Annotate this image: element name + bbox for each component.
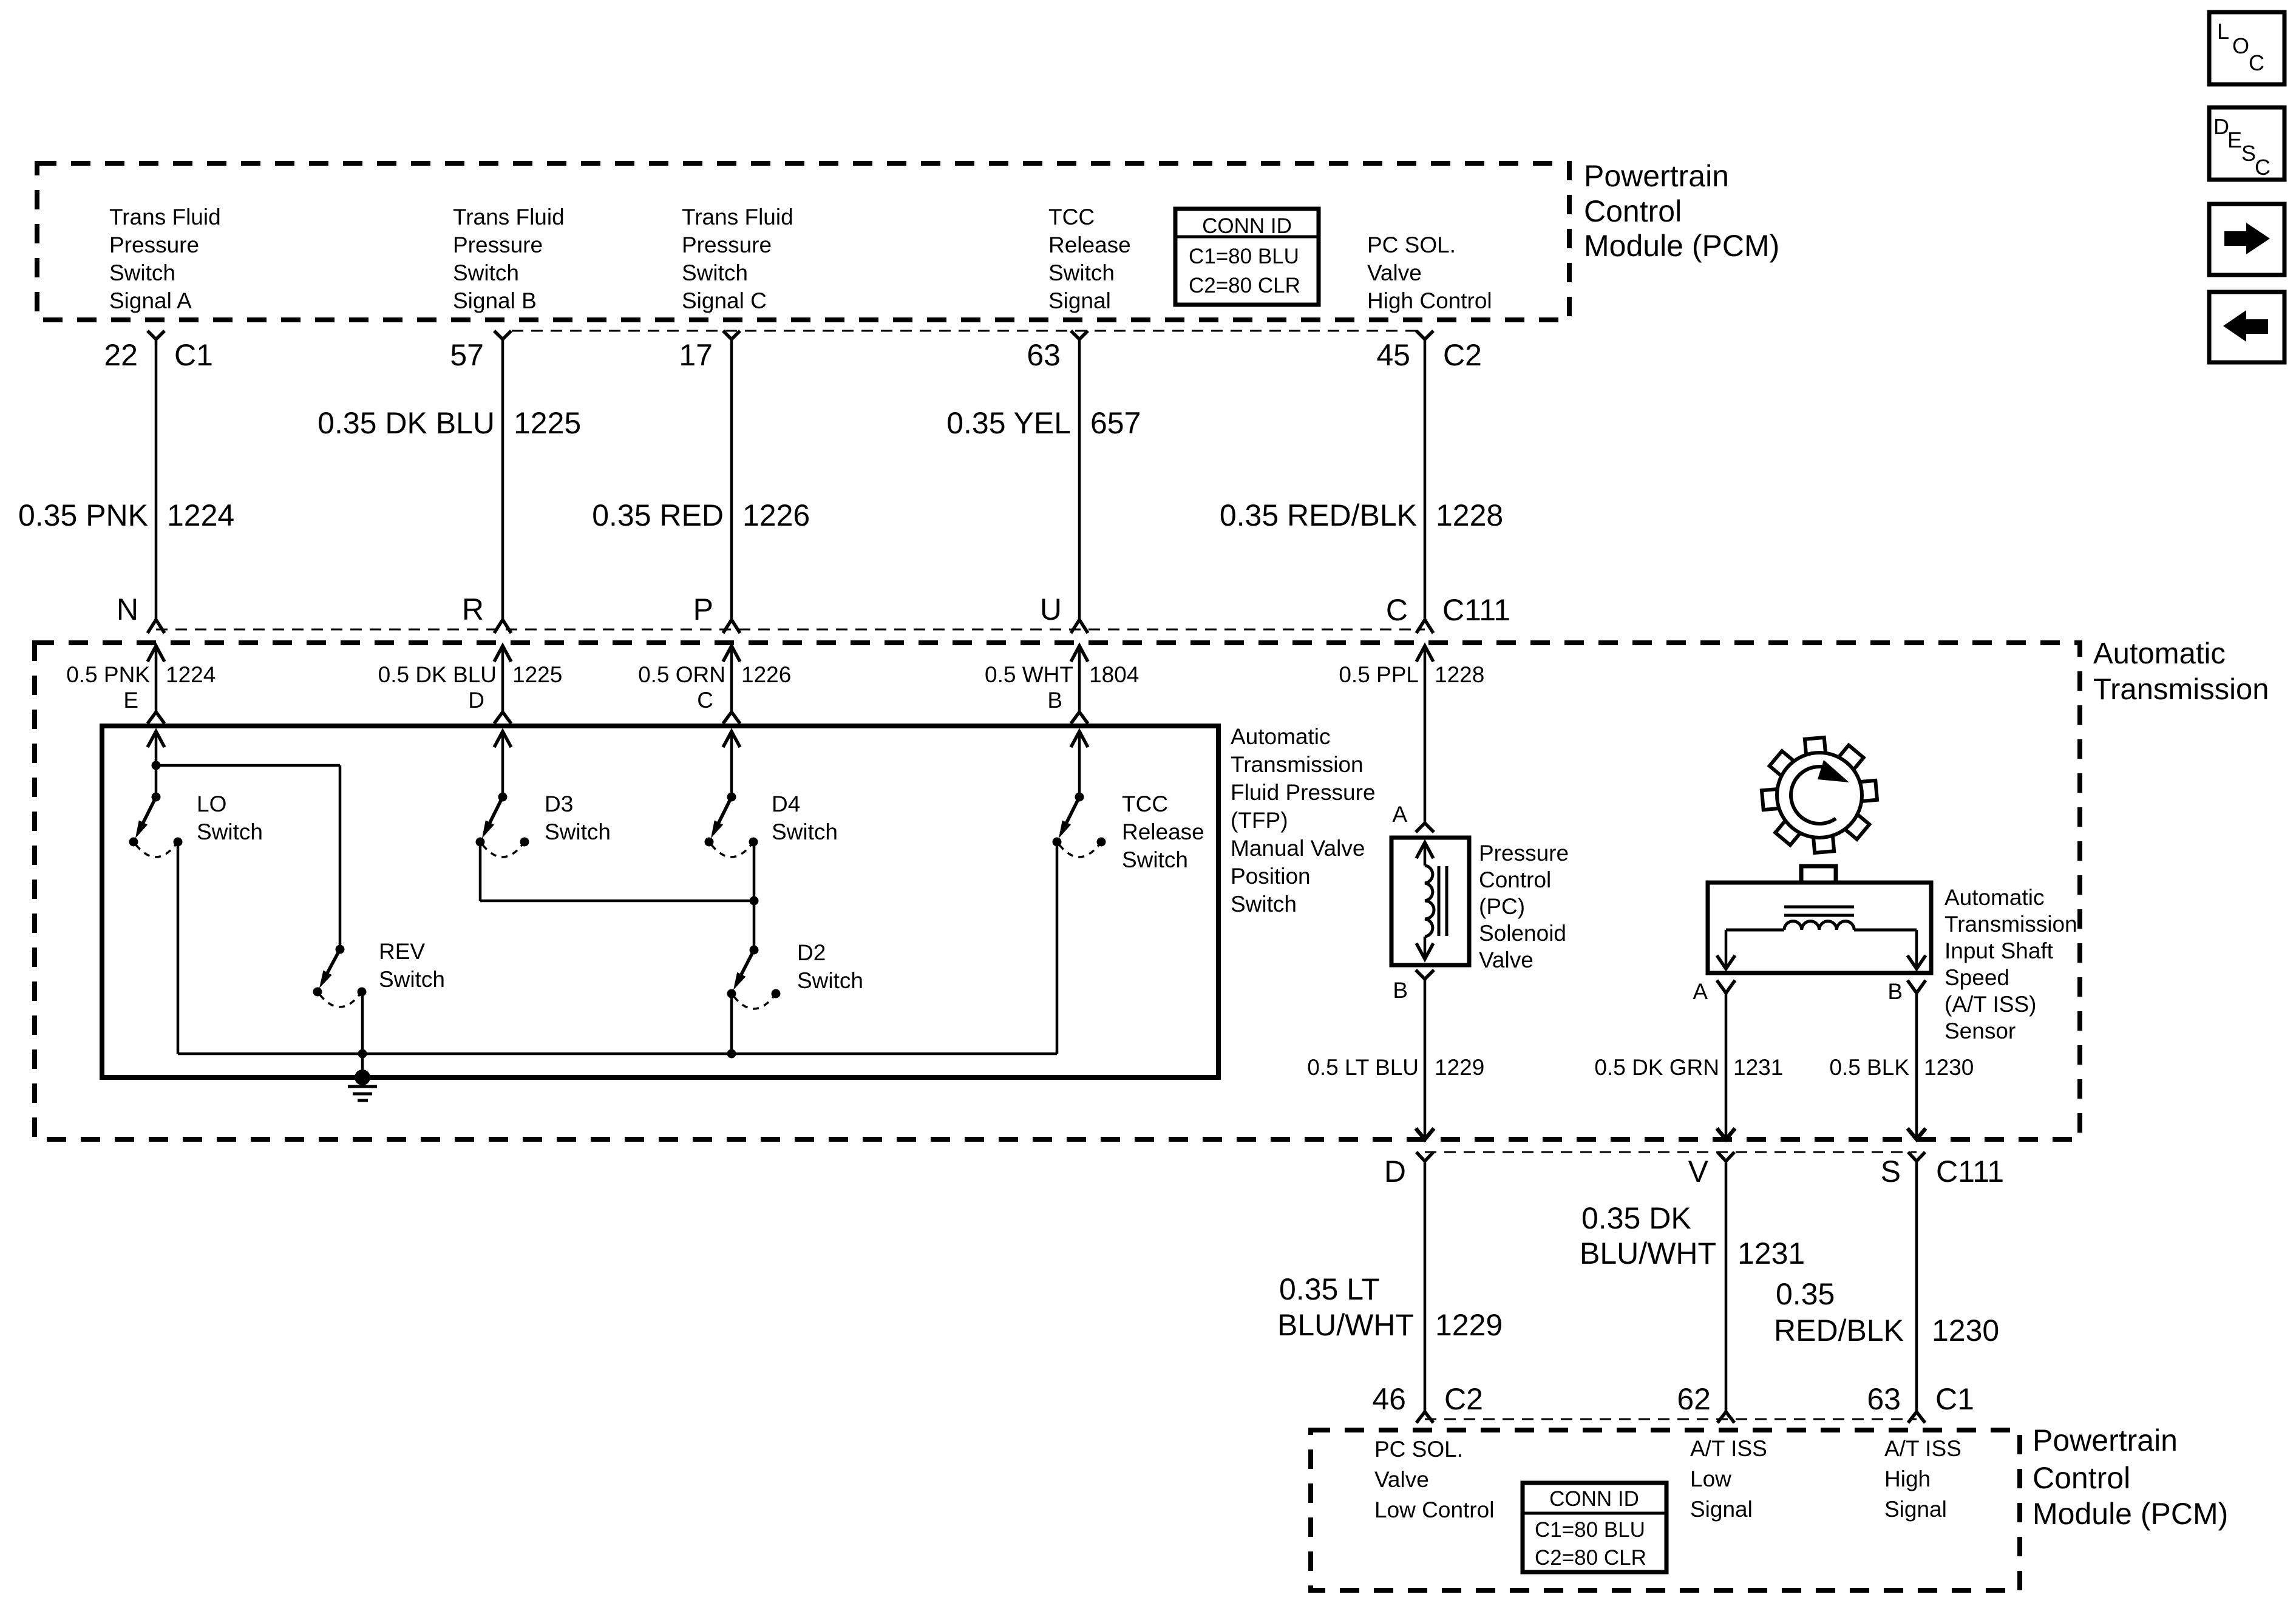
svg-text:BLU/WHT: BLU/WHT: [1580, 1236, 1716, 1270]
svg-text:S: S: [2241, 141, 2256, 166]
svg-text:1230: 1230: [1924, 1055, 1974, 1080]
svg-text:C2=80 CLR: C2=80 CLR: [1189, 274, 1300, 297]
svg-text:1226: 1226: [742, 498, 810, 532]
svg-text:1231: 1231: [1733, 1055, 1783, 1080]
svg-text:A/T ISS: A/T ISS: [1884, 1436, 1961, 1461]
svg-text:1228: 1228: [1435, 662, 1484, 687]
svg-text:Release: Release: [1048, 232, 1131, 257]
svg-text:L: L: [2217, 19, 2229, 44]
svg-text:Pressure: Pressure: [682, 232, 772, 257]
svg-text:C111: C111: [1442, 593, 1510, 627]
svg-text:Module (PCM): Module (PCM): [2033, 1497, 2228, 1531]
svg-text:O: O: [2232, 33, 2249, 58]
svg-text:S: S: [1881, 1154, 1901, 1188]
svg-text:C1: C1: [174, 338, 213, 372]
svg-text:0.5 LT BLU: 0.5 LT BLU: [1307, 1055, 1419, 1080]
svg-text:1228: 1228: [1436, 498, 1503, 532]
svg-text:PC SOL.: PC SOL.: [1374, 1437, 1463, 1462]
svg-text:Transmission: Transmission: [1231, 752, 1364, 777]
svg-text:45: 45: [1376, 338, 1410, 372]
svg-text:D2: D2: [797, 940, 826, 965]
svg-text:0.5 ORN: 0.5 ORN: [638, 662, 725, 687]
svg-text:Switch: Switch: [1122, 847, 1188, 872]
svg-text:657: 657: [1090, 406, 1141, 440]
svg-text:V: V: [1688, 1154, 1709, 1188]
svg-text:Pressure: Pressure: [453, 232, 543, 257]
svg-text:High Control: High Control: [1367, 288, 1492, 313]
svg-text:0.35: 0.35: [1776, 1277, 1835, 1311]
svg-text:Automatic: Automatic: [2093, 637, 2226, 670]
svg-text:1229: 1229: [1435, 1308, 1503, 1342]
svg-text:Switch: Switch: [453, 260, 519, 285]
svg-text:C2=80 CLR: C2=80 CLR: [1535, 1546, 1646, 1570]
svg-text:Switch: Switch: [1048, 260, 1115, 285]
svg-text:63: 63: [1027, 338, 1061, 372]
svg-text:57: 57: [450, 338, 484, 372]
svg-text:Valve: Valve: [1367, 260, 1422, 285]
svg-text:A: A: [1693, 979, 1708, 1004]
svg-text:C2: C2: [1444, 1382, 1483, 1416]
svg-text:Sensor: Sensor: [1944, 1019, 2016, 1043]
svg-text:(PC): (PC): [1479, 894, 1525, 919]
svg-text:N: N: [117, 592, 138, 626]
svg-text:D4: D4: [772, 792, 800, 816]
svg-text:Switch: Switch: [682, 260, 748, 285]
svg-text:CONN ID: CONN ID: [1202, 214, 1292, 238]
svg-text:Control: Control: [1584, 194, 1682, 228]
svg-text:(A/T ISS): (A/T ISS): [1944, 992, 2036, 1017]
svg-text:17: 17: [679, 338, 713, 372]
svg-text:Switch: Switch: [797, 968, 863, 993]
svg-text:LO: LO: [197, 792, 226, 816]
svg-text:Switch: Switch: [379, 967, 445, 992]
svg-text:B: B: [1047, 688, 1062, 713]
svg-text:Solenoid: Solenoid: [1479, 921, 1566, 946]
svg-text:C1=80 BLU: C1=80 BLU: [1535, 1518, 1645, 1542]
svg-text:Powertrain: Powertrain: [2033, 1423, 2178, 1457]
svg-text:1231: 1231: [1737, 1236, 1805, 1270]
svg-text:D3: D3: [545, 792, 573, 816]
svg-text:D: D: [468, 688, 484, 713]
svg-text:Switch: Switch: [109, 260, 175, 285]
svg-text:TCC: TCC: [1048, 205, 1095, 229]
svg-text:CONN ID: CONN ID: [1549, 1487, 1639, 1511]
svg-text:0.5 BLK: 0.5 BLK: [1829, 1055, 1909, 1080]
svg-text:A: A: [1392, 802, 1407, 827]
svg-text:Powertrain: Powertrain: [1584, 159, 1729, 193]
svg-text:U: U: [1040, 592, 1062, 626]
svg-text:Signal: Signal: [1690, 1497, 1753, 1522]
svg-text:C1: C1: [1935, 1382, 1974, 1416]
svg-text:22: 22: [104, 338, 138, 372]
svg-text:B: B: [1887, 979, 1903, 1004]
svg-text:E: E: [2227, 127, 2242, 152]
svg-text:(TFP): (TFP): [1231, 808, 1288, 833]
svg-text:Control: Control: [1479, 867, 1551, 892]
svg-text:D: D: [1384, 1154, 1406, 1188]
svg-text:Low Control: Low Control: [1374, 1497, 1494, 1522]
svg-text:C: C: [697, 688, 713, 713]
svg-text:Trans Fluid: Trans Fluid: [682, 205, 793, 229]
svg-text:0.35 YEL: 0.35 YEL: [946, 406, 1071, 440]
svg-text:0.35 RED: 0.35 RED: [592, 498, 724, 532]
svg-text:Speed: Speed: [1944, 965, 2009, 990]
svg-text:62: 62: [1677, 1382, 1711, 1416]
svg-text:0.5 PPL: 0.5 PPL: [1339, 662, 1419, 687]
svg-text:Trans Fluid: Trans Fluid: [109, 205, 221, 229]
svg-text:B: B: [1393, 978, 1408, 1003]
svg-text:Valve: Valve: [1374, 1467, 1429, 1492]
svg-text:0.35 DK: 0.35 DK: [1581, 1201, 1691, 1235]
svg-text:Input Shaft: Input Shaft: [1944, 938, 2054, 963]
svg-text:RED/BLK: RED/BLK: [1774, 1314, 1904, 1347]
svg-text:C: C: [1386, 593, 1408, 627]
svg-text:1226: 1226: [741, 662, 791, 687]
svg-text:E: E: [123, 688, 138, 713]
svg-text:High: High: [1884, 1466, 1931, 1491]
svg-text:REV: REV: [379, 939, 425, 964]
svg-text:Signal A: Signal A: [109, 288, 192, 313]
svg-text:C1=80 BLU: C1=80 BLU: [1189, 245, 1299, 268]
svg-text:Switch: Switch: [772, 819, 838, 844]
svg-text:Signal B: Signal B: [453, 288, 537, 313]
svg-text:Low: Low: [1690, 1466, 1731, 1491]
svg-text:Valve: Valve: [1479, 947, 1533, 972]
svg-text:Control: Control: [2033, 1461, 2130, 1495]
svg-text:1230: 1230: [1932, 1314, 1999, 1347]
svg-text:Manual Valve: Manual Valve: [1231, 836, 1365, 861]
svg-text:Automatic: Automatic: [1231, 724, 1331, 749]
svg-text:Switch: Switch: [1231, 892, 1297, 917]
svg-text:1224: 1224: [166, 662, 216, 687]
svg-text:R: R: [462, 592, 484, 626]
svg-text:0.5 WHT: 0.5 WHT: [985, 662, 1073, 687]
svg-text:Automatic: Automatic: [1944, 885, 2045, 910]
svg-text:C2: C2: [1443, 338, 1482, 372]
svg-text:0.5 DK BLU: 0.5 DK BLU: [378, 662, 497, 687]
svg-text:Signal: Signal: [1884, 1497, 1947, 1522]
svg-text:1229: 1229: [1435, 1055, 1484, 1080]
svg-text:Signal C: Signal C: [682, 288, 767, 313]
svg-text:C: C: [2255, 155, 2271, 180]
svg-text:Pressure: Pressure: [1479, 841, 1569, 866]
svg-text:1804: 1804: [1089, 662, 1139, 687]
svg-text:1225: 1225: [514, 406, 581, 440]
svg-text:C: C: [2249, 50, 2264, 75]
svg-text:Switch: Switch: [545, 819, 611, 844]
svg-text:0.35 PNK: 0.35 PNK: [18, 498, 148, 532]
svg-text:1225: 1225: [512, 662, 562, 687]
svg-text:PC SOL.: PC SOL.: [1367, 232, 1456, 257]
svg-text:Position: Position: [1231, 864, 1311, 889]
svg-text:0.35 RED/BLK: 0.35 RED/BLK: [1220, 498, 1417, 532]
svg-text:0.5 DK GRN: 0.5 DK GRN: [1594, 1055, 1719, 1080]
svg-text:BLU/WHT: BLU/WHT: [1277, 1308, 1414, 1342]
svg-text:Transmission: Transmission: [1944, 912, 2077, 937]
svg-text:P: P: [693, 592, 713, 626]
svg-text:C111: C111: [1936, 1154, 2004, 1188]
svg-text:TCC: TCC: [1122, 792, 1168, 816]
svg-text:Release: Release: [1122, 819, 1204, 844]
svg-text:Trans Fluid: Trans Fluid: [453, 205, 565, 229]
svg-text:1224: 1224: [167, 498, 234, 532]
svg-text:46: 46: [1372, 1382, 1406, 1416]
svg-text:Pressure: Pressure: [109, 232, 199, 257]
svg-text:Module (PCM): Module (PCM): [1584, 229, 1779, 263]
svg-text:Transmission: Transmission: [2093, 673, 2269, 706]
svg-text:Signal: Signal: [1048, 288, 1111, 313]
svg-text:0.35 LT: 0.35 LT: [1279, 1272, 1380, 1306]
svg-text:0.5 PNK: 0.5 PNK: [66, 662, 150, 687]
svg-text:A/T ISS: A/T ISS: [1690, 1436, 1767, 1461]
svg-text:63: 63: [1867, 1382, 1901, 1416]
svg-text:Switch: Switch: [197, 819, 263, 844]
svg-text:0.35 DK BLU: 0.35 DK BLU: [318, 406, 495, 440]
svg-text:Fluid Pressure: Fluid Pressure: [1231, 780, 1376, 805]
